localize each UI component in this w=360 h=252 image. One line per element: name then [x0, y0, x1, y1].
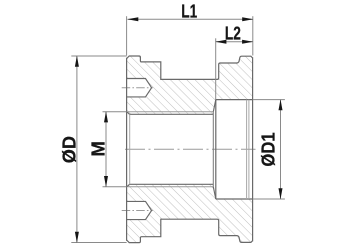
thread end cone upper — [213, 100, 216, 112]
L2 arrow right — [242, 40, 253, 44]
main centerline (part axis) — [125, 148, 256, 150]
svg-text:ØD: ØD — [59, 136, 79, 163]
hatched section material lower half — [127, 184, 253, 242]
svg-text:L2: L2 — [225, 24, 241, 44]
thread major line lower (thin) — [128, 186, 213, 188]
M arrow top — [104, 111, 108, 122]
svg-text:L1: L1 — [181, 2, 197, 22]
L1 extension line left — [126, 16, 128, 55]
entry chamfer ring projection — [129, 114, 131, 184]
counterbore entry chamfer ring 1 — [246, 100, 248, 199]
lower pin hole centerline — [122, 210, 153, 212]
thread bore minor line lower (thick) — [130, 183, 214, 185]
counterbore shoulder face — [215, 100, 217, 199]
L1 dimension line — [128, 18, 253, 20]
M extension line top — [103, 111, 127, 113]
upper pin hole outline — [127, 79, 152, 97]
svg-text:ØD1: ØD1 — [259, 132, 279, 166]
counterbore surface lower — [216, 198, 253, 200]
L1 arrow right — [242, 17, 253, 21]
OD1 dimension line — [280, 100, 282, 199]
counterbore entry chamfer ring 2 — [248, 100, 250, 199]
svg-text:M: M — [88, 141, 108, 157]
L2 extension line left — [215, 38, 217, 99]
L2 arrow left — [215, 40, 226, 44]
part outer outline upper half — [127, 56, 253, 79]
thread bore minor line upper (thick) — [130, 113, 214, 115]
OD1 arrow bottom — [279, 188, 283, 199]
part left face — [126, 58, 128, 241]
lower pin hole outline — [127, 201, 152, 219]
OD1 arrow top — [279, 99, 283, 110]
thread entry chamfer upper — [127, 112, 130, 115]
L1 L2 extension line right — [252, 16, 254, 55]
OD extension line top — [71, 55, 126, 57]
L1 arrow left — [127, 17, 138, 21]
hatched section material upper half — [127, 56, 253, 114]
thread entry chamfer lower — [127, 184, 130, 187]
OD arrow bottom — [75, 232, 79, 243]
OD dimension line — [76, 56, 78, 243]
part right end face — [252, 57, 254, 241]
OD1 extension line bottom — [253, 198, 285, 200]
upper pin hole centerline — [122, 87, 153, 89]
M arrow bottom — [104, 176, 108, 187]
thread end line — [212, 112, 214, 187]
counterbore surface upper — [216, 99, 253, 101]
thread major line upper (thin) — [128, 111, 213, 113]
L2 dimension line — [216, 41, 253, 43]
part outer outline lower half — [127, 219, 253, 242]
M extension line bottom — [103, 186, 127, 188]
OD arrow top — [75, 56, 79, 67]
M dimension line — [105, 112, 107, 187]
OD1 extension line top — [253, 99, 285, 101]
thread end cone lower — [213, 187, 216, 199]
OD extension line bottom — [71, 242, 126, 244]
